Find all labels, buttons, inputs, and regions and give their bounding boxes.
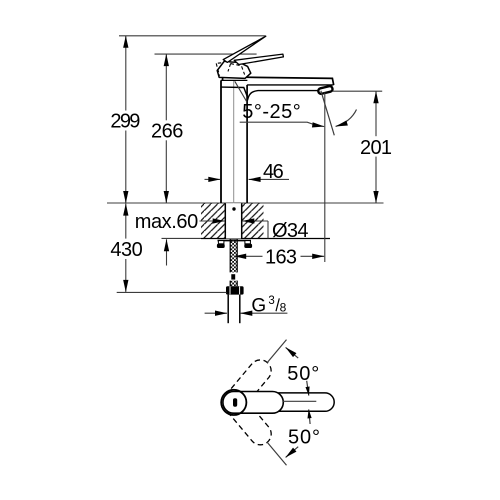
dia34 leader step: [267, 221, 269, 239]
spout band bottom line: [247, 84, 333, 86]
nut left: [217, 244, 225, 248]
svg-text:430: 430: [110, 239, 142, 261]
top view: handle stadium: [223, 392, 283, 414]
handle base body: [217, 61, 251, 78]
countertop bottom line / leader shelf: [201, 238, 330, 240]
dim 299 line: [125, 36, 127, 111]
top view: upper angle arrow to radial: [286, 347, 299, 358]
shank through countertop: [225, 203, 241, 238]
top view: dashed swivel position upper: [218, 355, 275, 417]
flexible hose braid: [229, 239, 239, 286]
G3/8 right arrow with shelf: [240, 312, 287, 314]
countertop bottom extension to max.60 arrow: [162, 237, 202, 239]
top view: dashed swivel position lower: [219, 387, 276, 449]
svg-text:5°-25°: 5°-25°: [242, 101, 300, 123]
top view: lower angle arrow to radial: [286, 447, 299, 458]
aerator: [318, 86, 333, 95]
dim 163 extension line (aerator vertical): [324, 93, 326, 263]
G3/8 left arrow: [205, 312, 227, 314]
body top joint line: [221, 79, 248, 81]
countertop hatching right: [242, 203, 264, 238]
svg-text:46: 46: [263, 161, 284, 183]
dim 299 extension line at lever raised tip: [119, 35, 266, 37]
svg-text:266: 266: [151, 120, 183, 142]
dim 430 line: [125, 204, 127, 239]
dim 430 extension line bottom: [117, 291, 227, 293]
faucet body left edge: [220, 80, 222, 203]
svg-text:8: 8: [280, 300, 287, 314]
faucet body right edge: [246, 85, 248, 203]
countertop top surface line: [107, 202, 384, 204]
svg-text:Ø34: Ø34: [272, 220, 309, 242]
svg-text:163: 163: [265, 246, 297, 268]
shank dot: [232, 207, 235, 210]
max.60 bottom reference arrow: [166, 239, 168, 265]
dim 163 line: [234, 255, 262, 257]
hose nut: [226, 286, 244, 294]
top view: upper arrow to spout line: [307, 381, 309, 396]
5-25 leader line to spout: [235, 81, 247, 102]
dim 201 extension line top: [333, 90, 382, 92]
label G 3/8: [251, 295, 286, 317]
top view: upper 50deg radial line: [267, 340, 286, 363]
top view: base circle: [221, 390, 246, 415]
svg-text:50°: 50°: [287, 363, 319, 385]
dim 266 extension line at lever lowered top: [155, 53, 257, 55]
spout underside curve: [221, 87, 318, 98]
dia34 leader arrow: [242, 220, 268, 222]
handle base dashed alt position: [216, 63, 244, 76]
lever lowered 5deg: [234, 54, 283, 64]
water stream line: [321, 91, 334, 136]
nut right: [244, 244, 252, 248]
svg-text:299: 299: [110, 111, 140, 133]
svg-text:3: 3: [268, 295, 274, 307]
washer right: [245, 241, 251, 244]
dim 46 arrows: [205, 178, 221, 180]
lever raised 25deg: [223, 36, 266, 62]
washer left: [218, 241, 224, 244]
mounting bracket: [218, 240, 252, 242]
connection tube G3/8: [227, 295, 229, 324]
5-25 underline and arrow: [240, 122, 325, 126]
top view: spout stadium: [270, 393, 334, 411]
svg-text:max.60: max.60: [135, 211, 199, 233]
dim 266 line: [165, 54, 167, 120]
stream angle arc arrow: [336, 110, 357, 127]
cap and spout top outline: [223, 77, 334, 85]
svg-text:201: 201: [360, 137, 392, 159]
svg-text:50°: 50°: [288, 427, 320, 449]
centerline faucet axis: [233, 81, 235, 239]
top view: lower 50deg radial line: [267, 442, 286, 465]
top view: lower arrow to spout line: [309, 409, 310, 424]
top view: handle mark: [233, 398, 237, 406]
dim 201 line: [375, 91, 377, 136]
max.60 leader arrow: [200, 220, 225, 222]
top view: centerline: [283, 400, 316, 402]
countertop hatching left: [201, 203, 225, 238]
